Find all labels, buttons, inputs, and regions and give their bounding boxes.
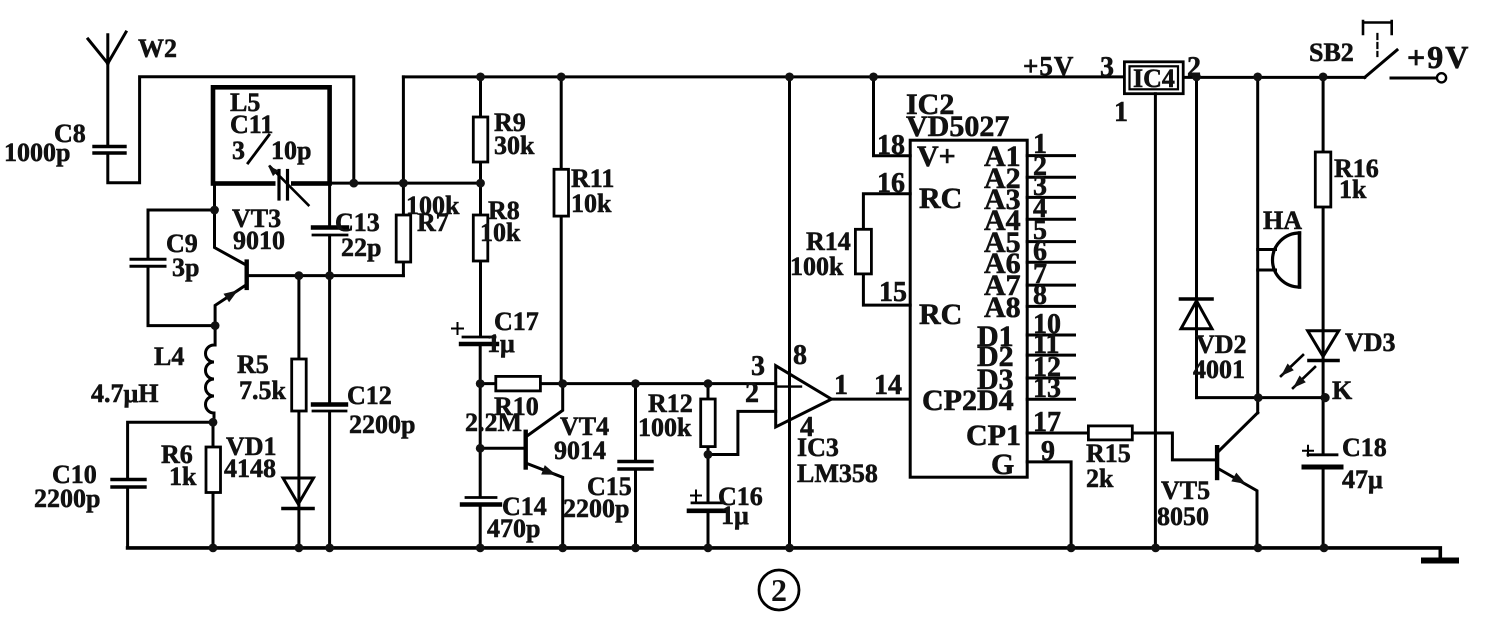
svg-text:22p: 22p <box>341 233 381 262</box>
svg-text:8050: 8050 <box>1157 502 1209 531</box>
svg-text:2200p: 2200p <box>34 484 100 513</box>
svg-text:VD5027: VD5027 <box>906 110 1009 143</box>
svg-text:SB2: SB2 <box>1309 38 1354 67</box>
svg-text:2200p: 2200p <box>563 494 629 523</box>
svg-text:2k: 2k <box>1086 464 1114 493</box>
svg-text:1: 1 <box>834 370 848 401</box>
svg-text:10k: 10k <box>480 218 521 247</box>
svg-text:2200p: 2200p <box>349 410 415 439</box>
svg-text:30k: 30k <box>494 131 535 160</box>
svg-text:2.2M: 2.2M <box>465 408 522 437</box>
svg-text:+5V: +5V <box>1023 51 1074 81</box>
svg-text:R5: R5 <box>237 350 269 379</box>
svg-text:8: 8 <box>1033 280 1047 311</box>
svg-text:RC: RC <box>919 298 962 331</box>
svg-text:1μ: 1μ <box>487 329 515 358</box>
svg-text:3: 3 <box>232 136 245 165</box>
svg-text:D4: D4 <box>977 384 1014 417</box>
svg-text:RC: RC <box>919 182 962 215</box>
svg-text:3p: 3p <box>172 253 199 282</box>
svg-text:K: K <box>1332 376 1353 405</box>
svg-text:100k: 100k <box>790 252 844 281</box>
svg-text:1k: 1k <box>169 462 197 491</box>
svg-text:LM358: LM358 <box>797 459 878 488</box>
svg-text:9: 9 <box>1041 436 1055 467</box>
svg-text:3: 3 <box>1100 52 1114 83</box>
svg-text:IC3: IC3 <box>797 433 839 462</box>
svg-text:18: 18 <box>877 130 905 161</box>
svg-text:HA: HA <box>1263 206 1302 235</box>
svg-text:17: 17 <box>1033 407 1061 438</box>
svg-text:10p: 10p <box>271 136 311 165</box>
svg-text:13: 13 <box>1033 373 1061 404</box>
svg-text:4001: 4001 <box>1193 355 1245 384</box>
svg-text:VT5: VT5 <box>1161 476 1210 505</box>
svg-text:8: 8 <box>793 340 807 371</box>
svg-text:470p: 470p <box>487 514 540 543</box>
svg-text:2: 2 <box>745 378 759 409</box>
svg-text:2: 2 <box>1187 52 1201 83</box>
svg-text:2: 2 <box>771 572 787 608</box>
svg-text:9010: 9010 <box>233 226 285 255</box>
svg-text:1000p: 1000p <box>4 138 70 167</box>
svg-text:100k: 100k <box>638 413 692 442</box>
svg-text:G: G <box>991 448 1014 481</box>
svg-text:C12: C12 <box>347 381 392 410</box>
svg-text:VD3: VD3 <box>1345 328 1396 357</box>
svg-text:10k: 10k <box>571 189 612 218</box>
svg-text:4148: 4148 <box>224 454 276 483</box>
svg-text:CP2: CP2 <box>922 384 977 417</box>
svg-text:15: 15 <box>879 277 907 308</box>
svg-text:7.5k: 7.5k <box>239 376 287 405</box>
svg-text:C11: C11 <box>230 110 273 139</box>
svg-text:1: 1 <box>1114 97 1128 128</box>
svg-text:V+: V+ <box>917 140 956 173</box>
svg-text:1k: 1k <box>1339 175 1367 204</box>
svg-text:W2: W2 <box>138 34 177 63</box>
svg-text:47μ: 47μ <box>1342 465 1383 494</box>
svg-text:16: 16 <box>877 168 905 199</box>
svg-text:1μ: 1μ <box>721 501 749 530</box>
svg-text:L4: L4 <box>154 342 184 371</box>
svg-text:IC4: IC4 <box>1133 64 1175 93</box>
svg-text:+9V: +9V <box>1407 39 1470 75</box>
svg-text:R7: R7 <box>417 208 449 237</box>
svg-text:4.7μH: 4.7μH <box>91 379 158 408</box>
svg-text:9014: 9014 <box>554 436 606 465</box>
svg-text:14: 14 <box>874 370 902 401</box>
svg-text:C18: C18 <box>1342 433 1387 462</box>
